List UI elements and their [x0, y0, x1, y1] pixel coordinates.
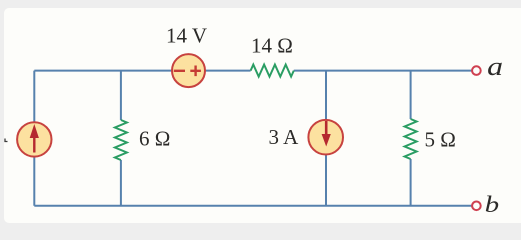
- terminal a: [472, 66, 481, 75]
- svg-text:b: b: [485, 192, 499, 218]
- current source 3A (arrow down): [308, 120, 343, 155]
- svg-text:5 Ω: 5 Ω: [425, 128, 456, 152]
- wire: 3A branch vertical: [325, 71, 327, 206]
- wire: top rail from left branch to terminal a (gap at 14-ohm resistor): [34, 70, 250, 72]
- wire: 5-ohm branch upper segment: [410, 71, 412, 119]
- resistor 5 ohm (vertical zigzag): [405, 119, 417, 159]
- svg-text:14 Ω: 14 Ω: [251, 34, 293, 58]
- wire: 5-ohm branch lower segment: [410, 159, 412, 206]
- minus sign inside 14V source: [174, 70, 185, 72]
- svg-text:3 A: 3 A: [269, 125, 300, 149]
- terminal b: [472, 202, 481, 211]
- svg-text:6 Ω: 6 Ω: [139, 127, 170, 151]
- current source (left, arrow up): [17, 122, 51, 156]
- plus sign inside 14V source: [190, 66, 201, 77]
- wire: left vertical branch (through 4A source): [33, 71, 35, 206]
- wire: top rail right of 14-ohm resistor: [294, 70, 472, 72]
- arrow of left current source: [30, 124, 39, 153]
- svg-text:a: a: [487, 52, 503, 81]
- voltage source 14V: [172, 54, 205, 87]
- wire: bottom rail to terminal b: [34, 205, 471, 207]
- resistor 14 ohm (horizontal zigzag): [251, 65, 294, 77]
- arrow of 3A source: [322, 121, 331, 147]
- wire: 6-ohm branch upper segment: [120, 71, 122, 120]
- wire: 6-ohm branch lower segment: [120, 160, 122, 206]
- svg-text:14 V: 14 V: [166, 24, 207, 48]
- cut-off label fragment at left edge: [5, 139, 8, 142]
- resistor 6 ohm (vertical zigzag): [115, 120, 127, 160]
